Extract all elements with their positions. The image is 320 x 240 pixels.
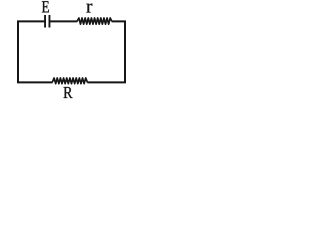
resistor R zigzag — [52, 78, 87, 84]
wire top middle segment from battery to resistor r — [50, 20, 77, 22]
resistor r zigzag — [77, 18, 112, 24]
wire right side with top-right and bottom-right segments — [87, 21, 125, 82]
label R — [64, 87, 73, 98]
label r — [86, 4, 92, 13]
battery E left plate — [44, 15, 46, 28]
label E — [42, 1, 49, 12]
battery E right plate — [48, 15, 50, 28]
wire left side with top-left and bottom-left segments — [18, 21, 53, 82]
